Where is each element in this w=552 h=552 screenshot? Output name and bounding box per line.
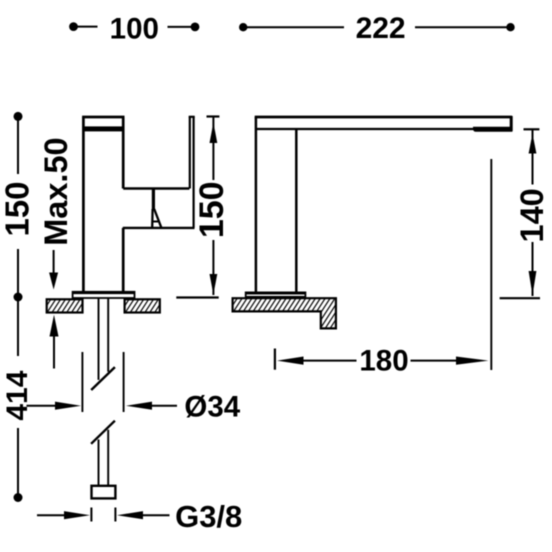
diameter 34 right arrow [126,402,152,410]
svg-text:150: 150 [193,181,231,238]
dimension 100 dot right [191,23,200,32]
side view: countertop L-shape [233,298,336,328]
supply pipe upper right line [107,299,109,372]
dimension 180: left arrow [277,357,304,365]
Max.50 down arrow [53,250,55,274]
side view: base plate thick top [246,292,306,295]
front view: body right edge upper [122,117,125,189]
front view: handle upper line [123,187,189,190]
side view: body right edge [295,129,298,293]
front view: cap bar [83,126,123,131]
side view: body left edge [255,117,258,293]
diameter 34 extension line right [123,352,125,412]
Max.50 label [38,137,74,245]
front view: body right edge lower [122,228,125,292]
supply pipe upper left line [98,299,100,380]
front view: countertop left slab [47,299,83,312]
front view: base plate thick top [73,291,135,294]
dimension 222 line right [415,26,511,28]
svg-text:140: 140 [514,188,550,242]
dimension 100 line right [168,26,196,28]
dimension 140: top tick [524,128,540,130]
dimension 150 middle label [193,181,231,238]
dimension 100 dot left [69,22,78,31]
dimension 180: left tick [274,349,276,370]
svg-text:G3/8: G3/8 [175,499,242,534]
Max.50 up arrow [50,315,59,337]
pipe break upper diagonal [91,367,115,390]
front view: handle blade top [189,116,195,118]
dimension 150 middle: bottom arrow [210,274,218,295]
front view: handle lower line [123,227,195,229]
dimension 150 left label [0,181,36,236]
dimension 414 line [17,297,19,356]
side view: base plate [246,292,306,296]
svg-text:Ø34: Ø34 [184,391,240,424]
dimension 222 dot right [506,23,514,31]
dimension 100 line left [74,26,98,28]
dimension 150 middle: top tick [207,115,220,117]
dimension 150 middle: top arrow [212,117,214,181]
svg-text:180: 180 [359,345,408,378]
side view: aerator [473,127,512,132]
svg-text:222: 222 [356,12,406,45]
front view: cartridge stem [152,189,155,210]
svg-text:150: 150 [0,181,36,236]
front view: cartridge crossbar [152,221,160,223]
front view: body left edge [82,117,85,292]
dimension 140: bottom arrow [529,271,537,295]
supply pipe lower left line [98,440,100,487]
dimension 180: right extension line [490,159,492,370]
diameter 34 left arrow [27,405,59,407]
G3/8 left arrow [37,514,64,516]
side view: spout top [255,116,512,119]
front view: countertop right slab [125,299,160,312]
G3/8 right arrow [117,511,143,519]
supply pipe lower right line [107,430,109,486]
pipe break lower diagonal [91,421,115,444]
dimension 414 dot bottom [14,493,23,502]
front view: cartridge wedge right leg [154,209,161,227]
svg-text:414: 414 [1,370,34,420]
dimension 180: right arrow [411,360,459,362]
svg-text:Max.50: Max.50 [38,137,74,245]
dimension Max50 region / diameter 34 extension line left [81,352,83,412]
svg-text:100: 100 [110,13,159,46]
dimension 140 label [514,188,550,242]
dimension 222 dot left [239,23,247,31]
dimension 150 left: dots and line [14,112,23,121]
connector nut [92,486,116,499]
dimension 414 label [1,370,34,420]
front view: cartridge wedge left leg [151,209,154,227]
dimension 150 middle: bottom tick [176,296,218,298]
front view: handle blade left [189,117,191,189]
front view: handle blade right [193,117,195,228]
front view: base plate [73,292,135,298]
G3/8 tick right [114,508,116,522]
G3/8 tick left [90,508,92,522]
dimension 140: top arrow [532,129,534,184]
side view: spout bottom [256,128,475,130]
side view: spout right edge [510,116,513,131]
dimension 140: bottom tick [500,297,540,299]
dimension 222 line left [243,26,344,28]
front view: body top [82,116,124,119]
shared dot between 150 and 414 [14,293,23,302]
